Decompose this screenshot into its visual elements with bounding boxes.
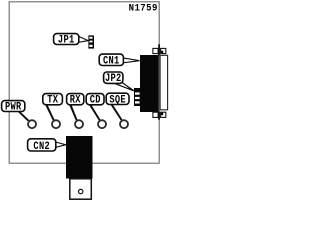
LED CD [98,120,106,128]
svg-text:PWR: PWR [5,101,22,113]
callout JP1 [54,34,89,46]
svg-text:CN2: CN2 [33,140,50,152]
callout SQE [106,93,129,120]
svg-text:N1759: N1759 [129,2,158,14]
svg-text:JP1: JP1 [58,34,75,46]
callout CD [86,94,104,121]
callout JP2 [104,72,134,91]
jumper JP2 [134,88,142,106]
connector CN2 (BNC at bottom) [66,136,93,199]
body [140,55,159,112]
callout CN1 [99,54,139,67]
svg-text:CN1: CN1 [103,54,120,66]
svg-text:TX: TX [47,94,58,106]
shell outside board edge [160,55,168,110]
LED TX [52,120,60,128]
black edge stubs [158,44,160,55]
board outline [9,2,159,163]
svg-text:CD: CD [90,94,101,106]
LED SQE [120,120,128,128]
LED RX [75,120,83,128]
callout CN2 [28,139,66,152]
svg-text:JP2: JP2 [105,72,122,84]
callout PWR [2,101,30,122]
top jackscrew [153,48,158,53]
callout TX [43,94,63,121]
svg-text:RX: RX [70,94,81,106]
connector CN1 (DB connector at right edge) [140,44,168,119]
jumper JP1 [88,35,94,48]
LED PWR [28,120,36,128]
bottom jackscrew [153,112,158,117]
part number N1759 [129,2,158,14]
svg-text:SQE: SQE [109,93,126,105]
callout RX [67,94,84,121]
